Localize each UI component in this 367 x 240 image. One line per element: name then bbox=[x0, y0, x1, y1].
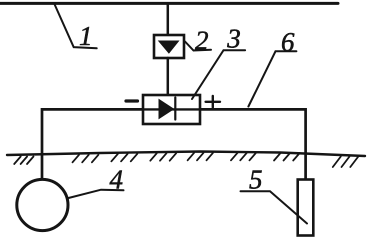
electrode 5 (rectangle) bbox=[298, 180, 314, 236]
leader line for label 6 bbox=[248, 51, 296, 106]
diode cathode bar bbox=[174, 98, 176, 120]
wire through diode box bbox=[143, 108, 200, 110]
leader line for label 3 bbox=[192, 50, 245, 99]
wire left: diode box to anode 4 bbox=[42, 109, 143, 180]
ground hatch group 1 bbox=[14, 157, 33, 165]
leader line for label 2 bbox=[185, 42, 211, 51]
wire 6: diode box to electrode 5 bbox=[200, 109, 306, 180]
diode D1 bbox=[159, 100, 174, 119]
minus polarity mark bbox=[126, 99, 138, 102]
svg-text:1: 1 bbox=[79, 21, 93, 51]
ground hatch group 5 bbox=[188, 153, 213, 161]
svg-text:3: 3 bbox=[226, 24, 241, 54]
svg-text:5: 5 bbox=[249, 165, 263, 195]
svg-text:6: 6 bbox=[281, 27, 295, 57]
plus polarity mark bbox=[206, 96, 220, 108]
anode electrode 4 (circle) bbox=[17, 179, 68, 230]
triangle symbol in U2 bbox=[159, 41, 179, 53]
ground hatch group 7 bbox=[274, 153, 300, 161]
pipeline line 1 bbox=[0, 2, 338, 5]
leader line for label 4 bbox=[67, 190, 124, 199]
ground hatch group 2 bbox=[73, 155, 99, 163]
wire converter to diode box bbox=[167, 58, 170, 95]
svg-text:4: 4 bbox=[110, 165, 124, 195]
converter box U2 bbox=[154, 35, 184, 58]
ground hatch group 8 bbox=[333, 157, 359, 168]
ground hatch group 3 bbox=[111, 154, 137, 162]
ground surface line bbox=[7, 152, 365, 157]
wire pipeline to converter bbox=[167, 4, 170, 35]
leader line for label 5 bbox=[241, 191, 308, 223]
ground hatch group 4 bbox=[150, 153, 176, 161]
ground hatch group 6 bbox=[231, 153, 256, 161]
svg-text:2: 2 bbox=[195, 26, 209, 56]
diode box 3 bbox=[143, 95, 200, 124]
leader line for label 1 bbox=[54, 4, 96, 49]
